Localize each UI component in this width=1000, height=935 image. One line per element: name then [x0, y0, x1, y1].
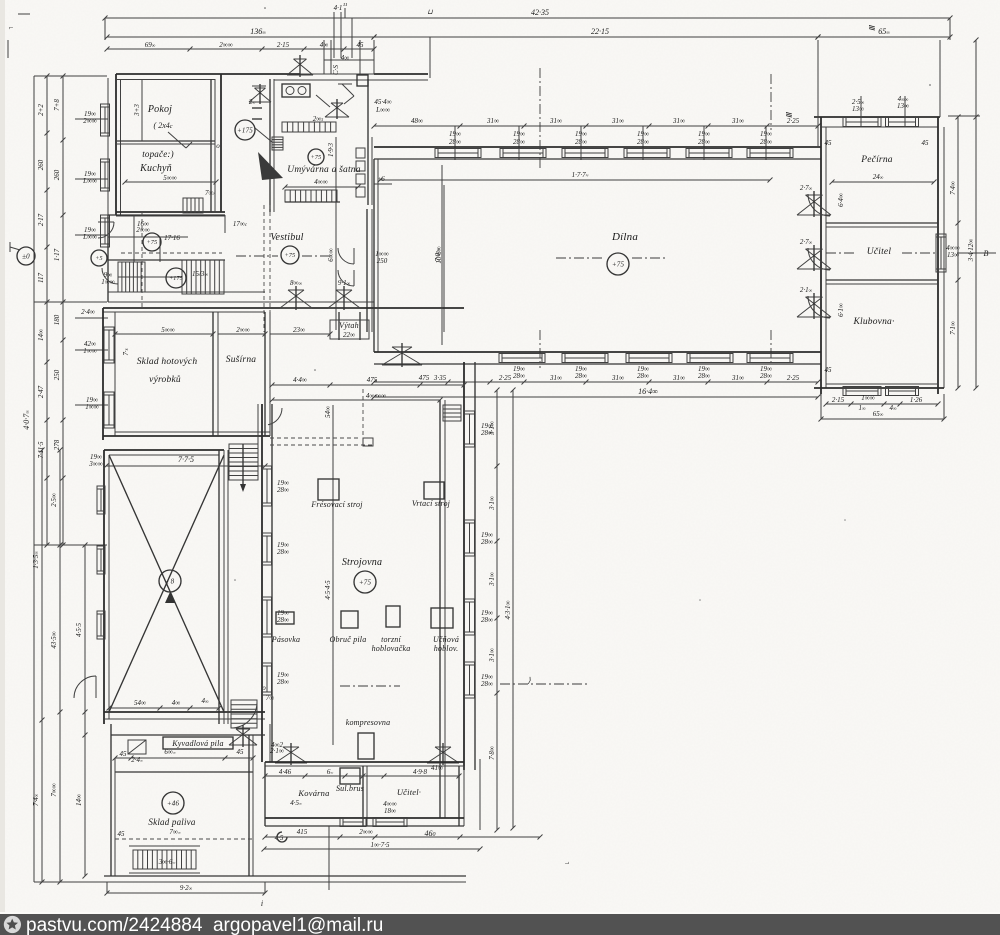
svg-text:+75: +75 [147, 240, 158, 246]
svg-text:28∞: 28∞ [277, 678, 289, 686]
stairs arrow line [242, 444, 244, 490]
level circle +175 hall [235, 120, 255, 140]
hall interior dim vertical [441, 165, 443, 345]
wing bottom wall [814, 387, 944, 389]
hall top window 4 [624, 149, 670, 158]
svg-text:48∞: 48∞ [411, 117, 423, 125]
paliva room top [115, 771, 253, 773]
svg-text:Kuchyň: Kuchyň [139, 163, 172, 174]
small stair below hall [443, 405, 461, 421]
building bottom outer line 2 [104, 881, 466, 883]
small box on dashed line [363, 438, 373, 446]
svg-text:2·15: 2·15 [277, 41, 290, 49]
svg-text:3·1∞: 3·1∞ [488, 572, 496, 587]
wing door arc 3 [808, 296, 830, 318]
forge door X left [275, 743, 307, 765]
ws top dim row 2 [270, 398, 443, 403]
window left wall 1 [101, 104, 110, 136]
svg-text:31∞: 31∞ [611, 117, 624, 125]
cluster mid wall [108, 259, 225, 261]
svg-text:7·11·5: 7·11·5 [37, 441, 45, 458]
top tick a [344, 8, 346, 18]
svg-text:415: 415 [297, 828, 308, 836]
svg-text:2·25: 2·25 [787, 117, 800, 125]
kuchyn bottom wall [116, 211, 225, 213]
wing dim 650 [819, 417, 947, 422]
locker row bottom wall [285, 201, 340, 203]
svg-text:Klubovna·: Klubovna· [852, 317, 894, 327]
svg-text:14∞: 14∞ [75, 794, 83, 806]
svg-text:28∞: 28∞ [277, 616, 289, 624]
svg-text:±0: ±0 [22, 253, 30, 261]
svg-text:278: 278 [53, 439, 61, 450]
svg-text:hoblovačka: hoblovačka [372, 644, 411, 653]
elevator shaft right [359, 312, 361, 340]
hall section axis bottom [539, 330, 541, 368]
hall bottom dim line [372, 380, 821, 385]
sklad top wall [103, 307, 464, 309]
hall top window 2 [500, 149, 546, 158]
svg-text:6·4∞: 6·4∞ [837, 193, 845, 207]
paper scan noise [0, 0, 1, 1]
workshop right inner wall [439, 400, 441, 818]
svg-text:31∞: 31∞ [672, 117, 685, 125]
forge top wall [265, 761, 464, 763]
svg-text:180: 180 [53, 314, 61, 325]
svg-text:2∞∞: 2∞∞ [219, 41, 232, 49]
machine rect torzni [386, 606, 400, 627]
jelirna right wall [264, 312, 266, 436]
wing door X 3 [797, 293, 831, 319]
svg-text:1∞∞: 1∞∞ [101, 278, 114, 286]
forge divider 1 [362, 766, 364, 826]
svg-text:45: 45 [120, 750, 128, 758]
brus machine rect [340, 768, 360, 784]
stair rail line [118, 276, 182, 278]
xroom door arc [74, 676, 96, 698]
wing right wall [937, 117, 939, 394]
wing right dim line a [956, 115, 961, 391]
ws win L2 [263, 533, 272, 565]
machine rect fresovaci [318, 479, 339, 500]
svg-text:54∞: 54∞ [324, 406, 332, 418]
svg-text:výrobků: výrobků [149, 374, 181, 385]
xroom bottom wall [104, 711, 265, 713]
svg-text:13∞: 13∞ [852, 105, 864, 113]
door X washroom NE [325, 99, 349, 119]
wing top window 1 [843, 118, 881, 127]
wing door X 2 [797, 245, 831, 271]
level circle washroom [308, 149, 324, 165]
dim 300 [218, 332, 268, 337]
svg-text:6∞∞: 6∞∞ [164, 748, 176, 756]
edge mark left [7, 40, 9, 58]
cluster left wall [107, 215, 109, 302]
cluster top wall [108, 214, 225, 216]
svg-text:2∞∞: 2∞∞ [83, 117, 96, 125]
left lower dim line a [40, 448, 45, 885]
speck [929, 84, 931, 86]
wing door X 1 [797, 191, 831, 217]
label box Kyvadlova pila [163, 737, 233, 749]
level circle +46 [162, 792, 184, 814]
bottom dim 415-200-460 [263, 835, 543, 840]
svg-text:4·5·4·5: 4·5·4·5 [324, 580, 332, 600]
svg-text:⌐: ⌐ [564, 859, 569, 868]
level mark circle plus-minus-0 [17, 247, 35, 265]
sklad window left 2 [104, 392, 114, 428]
svg-text:28∞: 28∞ [481, 680, 493, 688]
forge bottom wall [265, 817, 464, 819]
pokoj inner divider [141, 80, 143, 141]
sklad window left 1 [104, 327, 114, 363]
chimney vertical c [351, 18, 353, 58]
cluster divider 2 [159, 237, 161, 262]
svg-text:4∞: 4∞ [341, 54, 350, 62]
top dim drop left [104, 18, 106, 40]
svg-text:54∞: 54∞ [134, 699, 146, 707]
washroom scribble a [316, 95, 330, 107]
svg-text:4·5∞: 4·5∞ [290, 799, 302, 807]
cluster axis dashed vertical [141, 212, 143, 310]
svg-text:Sklad paliva: Sklad paliva [148, 817, 195, 827]
left lower dim line b [58, 448, 63, 885]
svg-text:13∞: 13∞ [947, 251, 959, 259]
svg-text:Učitel·: Učitel· [397, 787, 421, 797]
small stair kuchyn [183, 198, 203, 213]
washroom scribble c [255, 128, 272, 142]
svg-text:2·25: 2·25 [787, 374, 800, 382]
paliva left wall [110, 724, 112, 876]
svg-text:2·4∞: 2·4∞ [131, 756, 143, 764]
svg-text:28∞: 28∞ [277, 486, 289, 494]
level circle +5 [91, 250, 107, 266]
dark door fan [258, 152, 283, 180]
window left wall 2 [101, 159, 110, 191]
stair surround bottom [129, 872, 200, 874]
ws right dim 310s [495, 388, 500, 833]
xroom bottom dims [107, 706, 222, 711]
svg-text:3·35: 3·35 [433, 374, 447, 382]
hall axis vertical top [770, 74, 772, 130]
xroom diagonal 1 [109, 455, 224, 712]
svg-text:17·16: 17·16 [164, 234, 180, 242]
corridor wall to forge [269, 724, 271, 762]
dim line 136 [105, 35, 377, 40]
external stair hatch [133, 850, 196, 869]
porch left line [323, 40, 325, 74]
dim line 65 [816, 35, 953, 40]
left dim line 2 [46, 76, 48, 545]
ws win R1 [465, 411, 475, 447]
dim 230 [270, 332, 333, 337]
left lower dim line c [83, 543, 88, 879]
bench mark a [252, 107, 262, 109]
stair flight right [182, 260, 224, 294]
svg-text:475: 475 [367, 376, 378, 384]
svg-text:117: 117 [37, 273, 45, 283]
svg-text:45: 45 [922, 139, 930, 147]
svg-text:7·8∞: 7·8∞ [488, 746, 496, 760]
svg-text:Dílna: Dílna [611, 231, 638, 243]
machine rect obruc [341, 611, 358, 628]
door X corridor bottom [229, 725, 257, 747]
wing door arc 1 [808, 194, 830, 216]
door arc b [338, 270, 354, 286]
washroom scribble b [252, 85, 266, 87]
sklad bottom wall [103, 435, 270, 437]
workshop left wall inner [271, 404, 273, 762]
ws win R3 [465, 599, 475, 635]
svg-text:28∞: 28∞ [698, 372, 710, 380]
bench mark b [252, 118, 262, 120]
wing dim 240 [830, 180, 937, 185]
bottom dim 1075 [262, 847, 483, 852]
svg-text:⊔: ⊔ [427, 8, 433, 16]
svg-text:4∞: 4∞ [172, 699, 181, 707]
kompresor rect [358, 733, 374, 759]
svg-text:Vestibul: Vestibul [270, 232, 303, 243]
stub above stairs [257, 404, 259, 444]
xroom win 3 [97, 611, 105, 639]
svg-text:13∞: 13∞ [897, 102, 909, 110]
svg-text:i: i [261, 899, 263, 908]
ws win L4 [263, 663, 272, 695]
hall top wall outer [374, 146, 821, 148]
ucitel axis left [902, 252, 938, 254]
door arc wc [98, 222, 114, 238]
level circle hall +75 [607, 253, 629, 275]
svg-text:1∞∞: 1∞∞ [85, 403, 98, 411]
svg-text:260: 260 [53, 169, 61, 180]
svg-text:22∞: 22∞ [343, 331, 355, 339]
watermark bar background [0, 914, 1000, 935]
wing divider 1 [826, 222, 938, 224]
svg-text:torzní: torzní [381, 635, 401, 644]
hall bottom wall inner [374, 363, 821, 365]
locker row 2 [285, 190, 337, 202]
wing bottom window 2 [886, 387, 919, 396]
hall bottom window 1 [499, 354, 545, 363]
interior dim vertical 600 [335, 137, 337, 330]
workshop dashed line top [270, 437, 360, 439]
svg-text:2·5∞: 2·5∞ [50, 493, 58, 507]
stair flight left [118, 262, 145, 292]
level circle vestibul [281, 246, 299, 264]
forge right wall [458, 766, 460, 826]
svg-text:2∞∞: 2∞∞ [136, 226, 149, 234]
hall top window 5 [686, 149, 732, 158]
svg-text:2+2: 2+2 [37, 104, 45, 116]
corridor stairs top [229, 444, 258, 480]
chimney vertical b [340, 12, 342, 58]
svg-text:L∞∞: L∞∞ [375, 106, 390, 114]
xroom left wall [103, 450, 105, 724]
forge left wall [264, 762, 266, 826]
dim line 2215 [372, 35, 821, 40]
elevator shaft left [338, 312, 340, 340]
svg-text:5∞∞: 5∞∞ [163, 174, 176, 182]
dim line 69-200-215 [105, 47, 377, 52]
flag under circle [165, 592, 175, 603]
corridor bottom line [108, 301, 374, 303]
svg-text:7+8: 7+8 [53, 99, 61, 111]
svg-text:18∞: 18∞ [384, 807, 396, 815]
dim 500 sklad [113, 332, 216, 337]
svg-text:7·1∞: 7·1∞ [949, 321, 957, 335]
svg-text:31∞: 31∞ [549, 374, 562, 382]
svg-text:31∞: 31∞ [549, 117, 562, 125]
svg-text:Vrtací stroj: Vrtací stroj [412, 499, 451, 508]
svg-text:+75: +75 [359, 579, 372, 587]
pokoj room top line [117, 79, 215, 81]
paliva top wall [111, 734, 265, 736]
speck [844, 519, 846, 521]
svg-text:1∞·7·5: 1∞·7·5 [371, 841, 390, 849]
speck [234, 579, 236, 581]
pokoj right wall [210, 79, 212, 212]
B marker line [957, 252, 996, 254]
svg-text:1·9·3: 1·9·3 [327, 143, 335, 158]
svg-text:pastvu.com/2424884 argopavel1: pastvu.com/2424884 argopavel1@mail.ru [26, 915, 383, 935]
cluster dashed horizontal [121, 252, 222, 254]
far left vertical dim line [33, 76, 35, 882]
wing corner connector [939, 40, 941, 117]
svg-text:7·4∞: 7·4∞ [949, 181, 957, 195]
washroom tick d [338, 83, 352, 85]
hall-wing connector vertical [817, 40, 819, 147]
svg-text:28∞: 28∞ [760, 372, 772, 380]
svg-text:28∞: 28∞ [513, 372, 525, 380]
svg-text:3·4·12∞: 3·4·12∞ [967, 239, 975, 263]
svg-text:Sklad hotových: Sklad hotových [137, 357, 198, 367]
vertical dim through bottom [328, 826, 330, 890]
ws top dim row [270, 383, 467, 388]
svg-text:topače:): topače:) [142, 149, 174, 159]
svg-text:Frésovací stroj: Frésovací stroj [310, 500, 363, 509]
overall top dim line 42.35 [103, 16, 953, 21]
door X on sklad top wall a [280, 286, 312, 310]
wing bottom window 1 [843, 387, 881, 396]
washbasin tub [282, 84, 310, 97]
svg-text:Pokoj: Pokoj [147, 104, 172, 115]
svg-text:1∞∞: 1∞∞ [861, 394, 874, 402]
svg-text:Kovárna: Kovárna [297, 788, 329, 798]
hall bottom window 4 [687, 354, 733, 363]
svg-text:28∞: 28∞ [637, 372, 649, 380]
level circle workshop [354, 571, 376, 593]
svg-text:6·1∞: 6·1∞ [837, 303, 845, 317]
svg-text:Umývárna a šatna: Umývárna a šatna [287, 165, 360, 175]
svg-text:2·15: 2·15 [832, 396, 845, 404]
hall top wall inner [374, 158, 821, 160]
svg-text:260: 260 [37, 159, 45, 170]
right top dim tie [948, 115, 980, 117]
svg-text:Učitel: Učitel [867, 247, 892, 257]
vestibul right wall [366, 209, 368, 332]
svg-text:42·35: 42·35 [531, 8, 549, 17]
hall left wall [220, 74, 222, 212]
ws win L1 [263, 466, 272, 506]
tick connector mid [34, 301, 107, 303]
hall bottom window 3 [626, 354, 672, 363]
svg-text:+75: +75 [612, 261, 625, 269]
machine rect ucnova [431, 608, 453, 628]
svg-text:+75: +75 [311, 155, 322, 161]
svg-text:2·47: 2·47 [37, 385, 45, 398]
machine rect vrtaci [424, 482, 444, 499]
door X porch [287, 55, 313, 77]
svg-text:45: 45 [118, 830, 126, 838]
svg-text:16·4∞: 16·4∞ [638, 387, 658, 396]
left edge scan shading [0, 0, 5, 912]
interior dim vertical 1060 [443, 185, 445, 332]
svg-text:¹¹: ¹¹ [343, 2, 347, 10]
small stair hall [272, 137, 283, 150]
outer top wall left part [116, 73, 300, 75]
wing top window 2 [886, 118, 919, 127]
small niche left [128, 740, 146, 754]
right stub of cluster [224, 215, 226, 233]
speck [699, 599, 701, 601]
xroom right wall [218, 450, 220, 724]
washroom top inner line [274, 79, 360, 81]
ws win R4 [465, 662, 475, 698]
svg-text:45·4∞: 45·4∞ [374, 98, 391, 106]
svg-text:6∞∞: 6∞∞ [327, 248, 335, 261]
pokoj-kuchyn divider [117, 140, 215, 142]
level circle +175 stairs [166, 268, 186, 288]
svg-text:1·26: 1·26 [910, 396, 923, 404]
wing bottom dim line [824, 402, 941, 407]
svg-text:250: 250 [53, 369, 61, 380]
paliva right wall [248, 735, 250, 876]
workshop right outer wall [463, 362, 465, 770]
svg-text:4·1: 4·1 [334, 4, 343, 12]
svg-text:Strojovna: Strojovna [342, 557, 382, 568]
svg-text:7·7·5: 7·7·5 [178, 455, 194, 464]
svg-text:2·1∞: 2·1∞ [270, 747, 284, 755]
machine rect pasovka [276, 612, 294, 624]
hall top window 3 [562, 149, 608, 158]
svg-text:hoblov.: hoblov. [434, 644, 459, 653]
svg-text:3·1∞: 3·1∞ [488, 648, 496, 663]
dim 775 [104, 464, 268, 469]
hall axis dashdot left [632, 257, 668, 259]
corridor stairs bottom [231, 700, 257, 728]
door arc wc2 [102, 268, 118, 284]
elevator box [330, 320, 369, 339]
svg-text:+5: +5 [95, 256, 102, 262]
hall top dim line 310s [372, 124, 821, 129]
sklad left wall [102, 308, 104, 440]
porch mid line [324, 59, 374, 61]
forge door X right [427, 743, 459, 765]
wing right dim line b [974, 38, 979, 391]
svg-text:Sušírna: Sušírna [226, 355, 256, 365]
chimney vertical a [333, 12, 335, 58]
ws right dim 4310 [511, 388, 516, 831]
svg-text:4·3·1∞: 4·3·1∞ [504, 601, 512, 620]
door X washroom NW [249, 84, 271, 104]
level circle +75 landing [143, 233, 161, 251]
svg-text:+75: +75 [285, 253, 296, 259]
dim drop at washroom right [429, 37, 431, 78]
outer left wall upper [115, 74, 117, 215]
svg-text:2∞: 2∞ [249, 98, 256, 106]
svg-text:+175: +175 [237, 127, 253, 135]
hall bottom wall outer [374, 351, 821, 353]
